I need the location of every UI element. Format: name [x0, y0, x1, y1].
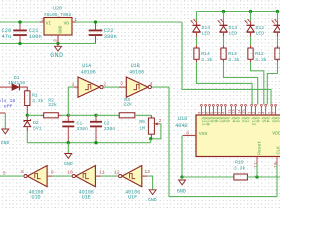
ground GND4 [0, 112, 5, 114]
wire U1F input to ground [147, 176, 153, 190]
wire reset pin drop [256, 164, 258, 177]
svg-text:1: 1 [74, 17, 77, 23]
svg-text:1N4148: 1N4148 [8, 80, 25, 86]
zener diode D2 [26, 115, 28, 120]
svg-text:40106: 40106 [129, 69, 144, 75]
U10 top pin Q10 [205, 106, 207, 115]
svg-text:U10: U10 [178, 116, 187, 122]
svg-text:4: 4 [150, 81, 153, 87]
wire LED column D14 [196, 12, 198, 22]
svg-text:1M: 1M [139, 125, 145, 131]
svg-text:R1: R1 [32, 92, 38, 98]
svg-text:3: 3 [120, 81, 123, 87]
U10 top pin Q12 [251, 106, 253, 115]
svg-text:D14: D14 [202, 25, 211, 31]
diode D1 [0, 86, 12, 88]
U10 top pin Q6 [221, 106, 223, 115]
svg-text:3.3k: 3.3k [228, 57, 240, 63]
wire R13 to U10 [223, 59, 225, 62]
wire rail to pot node [150, 139, 152, 143]
wire D13 to R13 [223, 32, 225, 36]
svg-text:10: 10 [67, 169, 73, 175]
U10 top pin Q2 [241, 106, 243, 115]
svg-text:3.3k: 3.3k [201, 57, 213, 63]
svg-text:11: 11 [99, 169, 105, 175]
U10 top pin Q5 [224, 106, 226, 115]
resistor R11 [275, 48, 280, 59]
trimmer wiper arrow [157, 123, 161, 125]
wire LED column D12 [250, 12, 252, 22]
svg-text:VI: VI [46, 22, 52, 27]
LED D11 [274, 24, 282, 26]
U10 top pin Q1 [245, 106, 247, 115]
svg-text:D13: D13 [229, 25, 238, 31]
svg-text:U1B: U1B [131, 63, 140, 69]
svg-text:330n: 330n [77, 126, 89, 132]
svg-text:GND: GND [177, 189, 186, 195]
svg-text:GND: GND [148, 197, 157, 203]
svg-text:GND: GND [64, 161, 73, 167]
wire to R3 [96, 114, 119, 116]
U10 top pin Q3 [271, 106, 273, 115]
svg-text:8: 8 [21, 169, 24, 175]
svg-text:GND: GND [50, 52, 63, 59]
wire LED column D11 [277, 12, 279, 22]
svg-text:GND: GND [59, 25, 64, 33]
svg-text:100n: 100n [29, 34, 42, 40]
svg-text:LED: LED [202, 31, 211, 37]
ground GND3 [67, 143, 69, 154]
capacitor C1 [67, 115, 69, 121]
node C2 top [94, 114, 97, 117]
svg-text:VO: VO [64, 22, 70, 27]
regulator U20 [44, 18, 72, 36]
svg-text:3: 3 [41, 17, 44, 23]
svg-text:U1D: U1D [31, 195, 40, 201]
svg-text:C22: C22 [104, 28, 114, 34]
ground GND5 [149, 190, 156, 195]
svg-text:330n: 330n [104, 34, 117, 40]
U10 top pin Q3 [235, 106, 237, 115]
svg-text:Q4: Q4 [265, 117, 271, 123]
wire bottom osc rail [27, 142, 150, 144]
wire U1D output to edge [0, 175, 23, 177]
capacitor C20 [19, 22, 21, 30]
node C1 bottom / ground tap [67, 141, 70, 144]
U10 top pin Q11 [200, 106, 202, 115]
svg-text:40106: 40106 [81, 69, 96, 75]
wire +V input rail [0, 21, 40, 23]
svg-text:U20: U20 [53, 6, 62, 12]
svg-text:VDD: VDD [272, 130, 280, 136]
wire LED column D13 [223, 12, 225, 22]
svg-text:U1E: U1E [82, 195, 91, 201]
svg-text:D12: D12 [256, 25, 265, 31]
svg-text:47u: 47u [2, 34, 12, 40]
U10 top pin Q6 [255, 106, 257, 115]
wire R11 to U10 [277, 59, 279, 62]
svg-text:330n: 330n [104, 126, 116, 132]
node osc [26, 114, 29, 117]
svg-text:1: 1 [72, 81, 75, 87]
svg-text:Q5: Q5 [224, 117, 230, 123]
LED D13 [220, 24, 228, 26]
ground GND1 [57, 44, 59, 47]
svg-text:Q2: Q2 [275, 117, 281, 123]
svg-text:C21: C21 [29, 28, 39, 34]
svg-text:GND: GND [1, 140, 10, 146]
svg-text:22k: 22k [123, 102, 132, 108]
svg-text:Q3: Q3 [235, 117, 241, 123]
svg-text:VSS: VSS [199, 131, 208, 137]
wire R1 to node [26, 106, 28, 116]
svg-text:R14: R14 [201, 51, 210, 57]
svg-text:D2: D2 [33, 120, 39, 126]
svg-text:9: 9 [51, 169, 54, 175]
wire D14 to R14 [196, 32, 198, 36]
svg-text:R12: R12 [255, 51, 264, 57]
U10 top pin Q9 [209, 106, 211, 115]
svg-text:4: 4 [222, 112, 226, 114]
svg-text:C2: C2 [104, 120, 110, 126]
wire D11 to R11 [277, 32, 279, 36]
wire LED supply rail [197, 11, 278, 13]
svg-text:LED: LED [229, 31, 238, 37]
wire D12 to R12 [250, 32, 252, 36]
svg-text:12: 12 [114, 169, 120, 175]
svg-text:Q1: Q1 [244, 117, 250, 123]
wire ground to R19 [182, 176, 234, 178]
svg-text:3.3k: 3.3k [255, 57, 267, 63]
svg-text:3.3k: 3.3k [32, 98, 44, 104]
svg-text:6: 6 [273, 112, 277, 114]
ground GND2 [179, 180, 186, 185]
wire R19 to reset pin [247, 176, 280, 178]
wire wiper to bottom [151, 124, 161, 139]
svg-text:4: 4 [263, 112, 267, 114]
svg-text:5V1: 5V1 [33, 126, 42, 132]
trimmer R6 [150, 115, 152, 118]
svg-text:R13: R13 [228, 51, 237, 57]
svg-text:2: 2 [252, 112, 256, 114]
U10 top pin Q4 [265, 106, 267, 115]
svg-text:12: 12 [233, 109, 237, 113]
capacitor C22 [95, 22, 97, 30]
svg-text:2: 2 [52, 39, 58, 42]
wire D1 to R1 [20, 87, 28, 91]
U10 top pin Q5 [260, 106, 262, 115]
resistor R19 [234, 174, 248, 180]
svg-text:CLK: CLK [276, 146, 280, 155]
wire ground rail [0, 43, 96, 45]
wire VSS to ground [181, 136, 183, 178]
svg-text:LED: LED [256, 31, 265, 37]
svg-text:C20: C20 [2, 28, 12, 34]
wire U1F out to U1E in [101, 175, 119, 177]
wire pot bottom [150, 134, 152, 139]
resistor R14 [194, 48, 199, 59]
U10 top pin Q8 [212, 106, 214, 115]
svg-text:U1A: U1A [82, 63, 91, 69]
U10 pin VSS [183, 135, 196, 137]
node ground junction [180, 175, 183, 178]
svg-text:U1F: U1F [128, 195, 137, 201]
svg-text:4040: 4040 [175, 123, 187, 129]
svg-text:13: 13 [144, 169, 150, 175]
resistor R1 [25, 91, 30, 106]
wire U1E out to U1D in [52, 175, 73, 177]
wire osc node to U1A input [68, 87, 74, 115]
svg-text:15: 15 [242, 109, 246, 113]
svg-text:3.3k: 3.3k [234, 165, 246, 171]
U10 top pin Q4 [230, 106, 232, 115]
wire R3 to pot [135, 114, 152, 116]
capacitor C2 [95, 115, 97, 121]
IC U10 4040 body [196, 115, 282, 157]
wire C1-C2 [68, 114, 96, 116]
svg-text:R19: R19 [235, 159, 244, 165]
svg-text:t eff: t eff [0, 103, 13, 109]
svg-text:Reset: Reset [257, 141, 263, 155]
node C1 top [67, 114, 70, 117]
svg-text:22k: 22k [48, 102, 57, 108]
grid dots [0, 0, 280, 210]
wire R12 to U10 [250, 59, 252, 62]
resistor R12 [248, 48, 253, 59]
svg-text:5: 5 [3, 170, 6, 176]
wire CLK net from U1B [152, 87, 277, 197]
U10 top pin Q7 [217, 106, 219, 115]
U10 top pin Q2 [275, 106, 277, 115]
svg-text:ols 18: ols 18 [0, 98, 15, 104]
wire R14 to U10 [196, 59, 198, 62]
LED D14 [193, 24, 201, 26]
wire D2 to bottom rail [26, 127, 28, 131]
svg-text:8: 8 [186, 131, 189, 137]
svg-text:C1: C1 [77, 120, 83, 126]
node pot bottom [149, 137, 152, 140]
svg-text:R6: R6 [139, 119, 145, 125]
svg-text:Q6: Q6 [254, 117, 260, 123]
LED D12 [247, 24, 255, 26]
wire VDD drop [182, 22, 271, 105]
resistor R13 [221, 48, 226, 59]
wire +5V output rail to LED/IC section [76, 21, 182, 23]
node C2 bottom [94, 141, 97, 144]
wire U1A out to U1B in [103, 86, 119, 88]
svg-text:78L05_T092: 78L05_T092 [44, 12, 72, 18]
